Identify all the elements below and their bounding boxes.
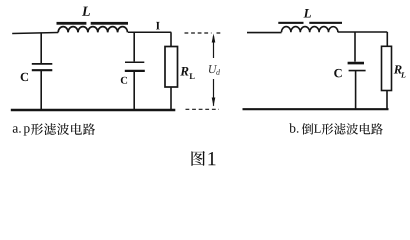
wire: right circuit top rail after inductor	[338, 31, 387, 33]
current label I	[156, 22, 160, 30]
node: dashed extension bottom (to Ud arrow)	[186, 108, 220, 110]
capacitor C (right circuit)	[348, 32, 366, 109]
inductor L core bar right segment (right circuit)	[309, 22, 342, 24]
value label C (left circuit second capacitor)	[121, 77, 127, 84]
inductor L core bar left segment	[57, 22, 87, 25]
wire: left circuit top rail after inductor	[128, 31, 171, 33]
wire: left circuit top rail (input side)	[12, 33, 58, 34]
inductor L (right circuit choke coil)	[282, 27, 338, 33]
resistor RL (left circuit load)	[165, 32, 178, 110]
node: dashed extension top (to Ud arrow)	[185, 32, 221, 34]
inductor L core bar right segment	[91, 22, 128, 25]
wire: left circuit bottom rail	[11, 109, 176, 111]
inductor L (left circuit choke coil)	[58, 27, 127, 33]
voltage label Ud	[209, 65, 220, 75]
inductor L core bar left segment (right circuit)	[278, 22, 303, 24]
value label C (right capacitor)	[334, 69, 341, 77]
capacitor C2 (left circuit second capacitor)	[125, 32, 145, 110]
resistor RL (right circuit load)	[382, 32, 392, 110]
figure caption: Figure 1	[191, 151, 215, 166]
wire: right circuit bottom rail	[243, 108, 389, 110]
caption a: p-type filter circuit	[13, 123, 95, 135]
wire: right circuit top rail (input side)	[247, 32, 282, 34]
value label L (left inductor)	[82, 7, 90, 16]
voltage annotation Ud arrow line	[212, 34, 216, 107]
value label RL (left load resistor)	[180, 67, 194, 79]
caption b: inverted-L filter circuit	[289, 123, 383, 134]
capacitor C1 (left input capacitor)	[32, 33, 53, 111]
value label L (right inductor)	[304, 9, 311, 18]
value label C (left input capacitor)	[21, 73, 28, 81]
value label RL (right load resistor)	[394, 65, 406, 77]
